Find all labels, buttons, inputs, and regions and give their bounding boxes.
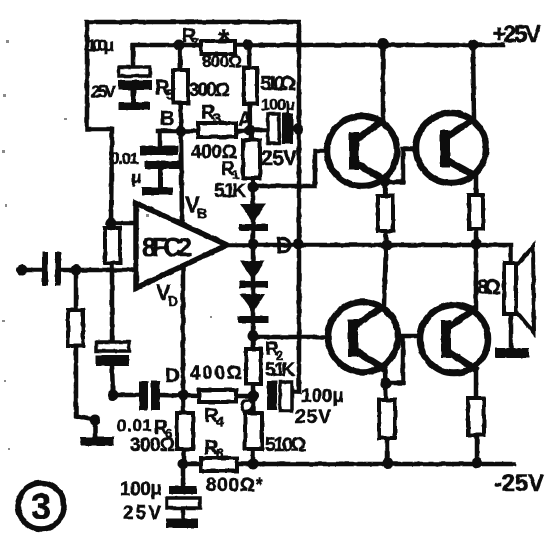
svg-text:D: D [168, 293, 178, 309]
svg-text:100μ: 100μ [87, 36, 114, 55]
svg-text:0.01: 0.01 [110, 149, 139, 168]
svg-text:1: 1 [232, 167, 239, 182]
svg-text:25V: 25V [123, 503, 161, 524]
svg-text:B: B [197, 205, 207, 221]
svg-text:25V: 25V [295, 407, 331, 428]
svg-text:D: D [276, 233, 292, 258]
svg-text:D: D [165, 365, 179, 387]
svg-text:A: A [238, 109, 252, 131]
svg-text:+25V: +25V [492, 21, 541, 48]
svg-text:8FC2: 8FC2 [142, 232, 192, 262]
svg-text:μ: μ [131, 168, 141, 187]
svg-text:100μ: 100μ [120, 479, 162, 500]
svg-text:7: 7 [192, 35, 199, 50]
svg-text:4: 4 [216, 413, 224, 429]
svg-text:800Ω: 800Ω [202, 52, 242, 71]
svg-text:25V: 25V [91, 82, 117, 101]
svg-text:300Ω: 300Ω [189, 80, 230, 101]
svg-text:100μ: 100μ [261, 97, 295, 114]
svg-text:100μ: 100μ [301, 386, 344, 407]
svg-text:5.1K: 5.1K [265, 360, 295, 381]
svg-text:5: 5 [166, 86, 174, 102]
svg-text:3: 3 [31, 486, 51, 527]
svg-text:800Ω*: 800Ω* [206, 475, 264, 496]
svg-text:-25V: -25V [494, 470, 544, 497]
svg-text:3: 3 [213, 110, 221, 126]
svg-text:0.01: 0.01 [117, 416, 152, 435]
svg-text:300Ω: 300Ω [130, 435, 175, 456]
svg-text:B: B [160, 108, 174, 130]
svg-text:8Ω: 8Ω [477, 276, 501, 299]
svg-text:510Ω: 510Ω [260, 73, 296, 95]
svg-text:5.1K: 5.1K [214, 181, 246, 202]
svg-text:510Ω: 510Ω [265, 435, 306, 456]
svg-text:C: C [240, 396, 253, 416]
svg-text:8: 8 [216, 445, 224, 461]
svg-text:400Ω: 400Ω [190, 363, 242, 384]
svg-text:25V: 25V [261, 147, 297, 170]
